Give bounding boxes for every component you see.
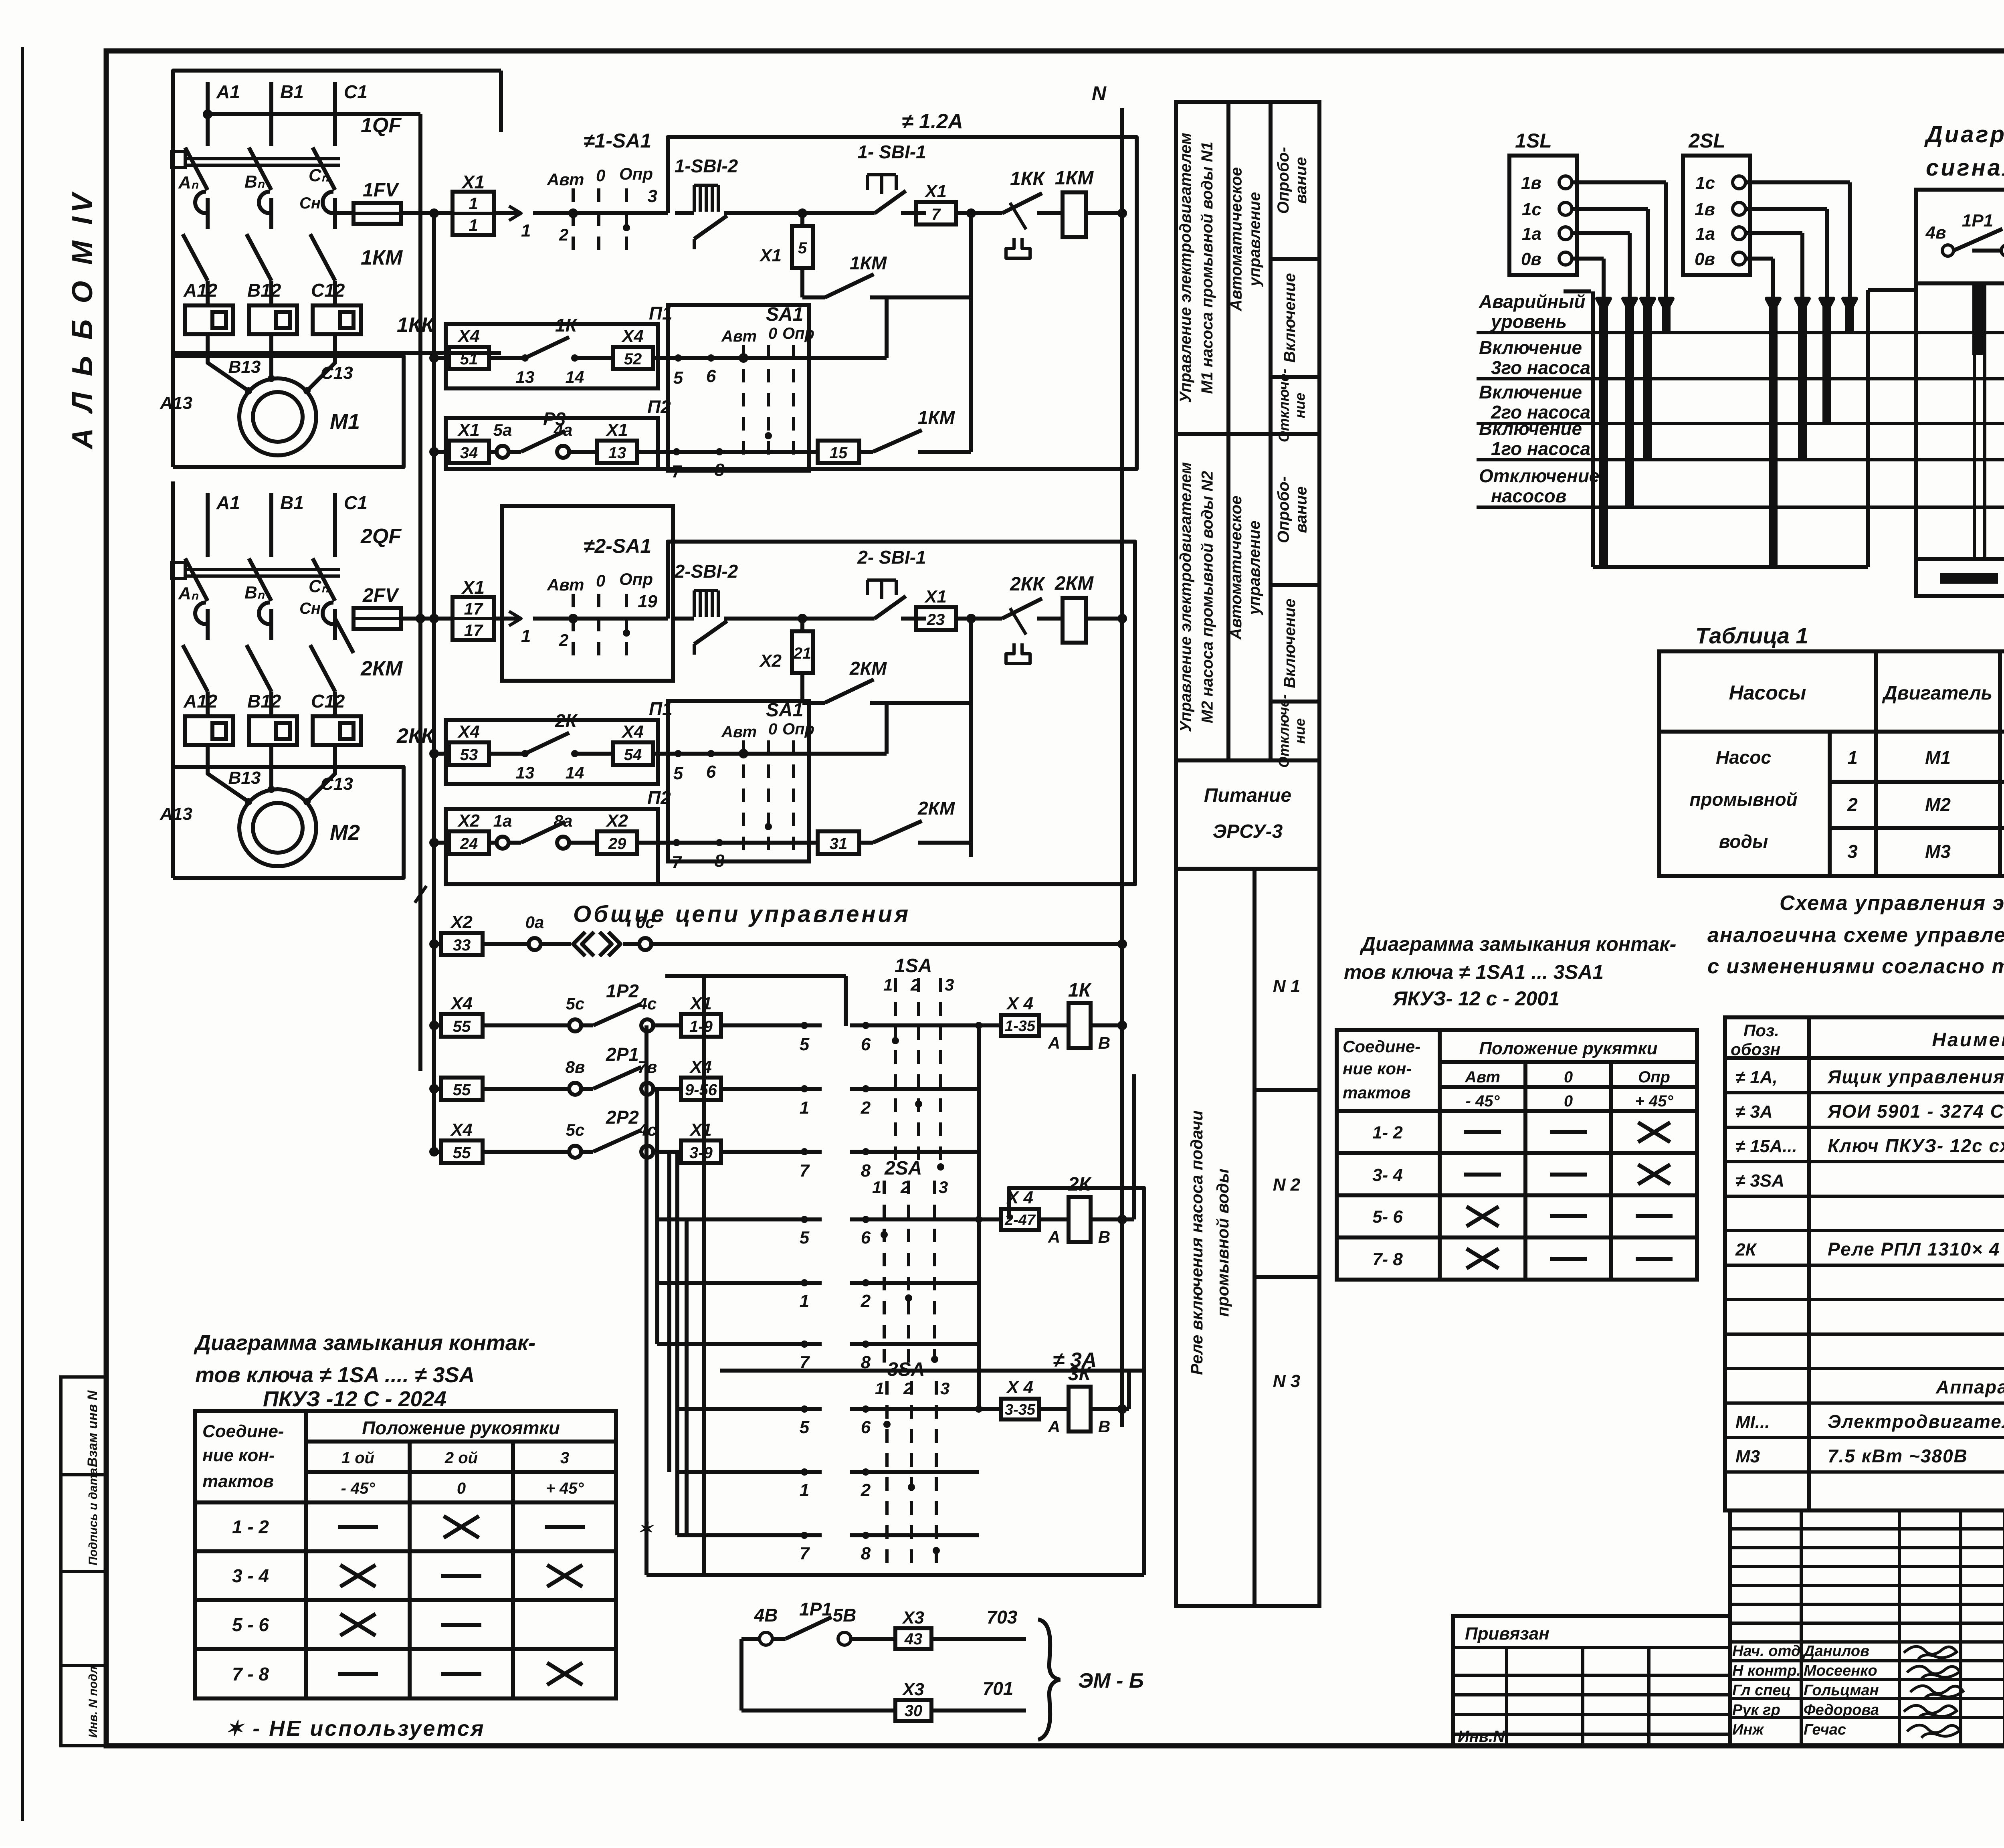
- svg-text:X3: X3: [901, 1680, 924, 1699]
- function block motor 1: [1226, 102, 1230, 434]
- svg-text:0: 0: [1564, 1068, 1573, 1086]
- svg-text:1а: 1а: [1522, 224, 1541, 244]
- svg-text:17: 17: [464, 621, 483, 640]
- contactor coil 2KM: [1063, 598, 1086, 643]
- level sensor 2SL: [1683, 156, 1750, 275]
- svg-text:X2: X2: [605, 811, 628, 831]
- svg-text:≠ 3А: ≠ 3А: [1053, 1349, 1097, 1372]
- svg-text:N: N: [1092, 82, 1107, 105]
- svg-text:5: 5: [800, 1417, 810, 1437]
- svg-text:✶: ✶: [637, 1518, 654, 1539]
- parts list grid: [1725, 1017, 2004, 1510]
- svg-text:С1: С1: [344, 81, 368, 102]
- svg-text:Схема управления электро: Схема управления электродвигателями М2, …: [1780, 892, 2004, 915]
- left margin stamp boxes: [61, 1377, 107, 1746]
- box P2 circuit 2: [446, 809, 658, 884]
- svg-text:Сн: Сн: [299, 194, 321, 212]
- svg-text:X1: X1: [605, 420, 628, 440]
- svg-text:3: 3: [945, 975, 954, 994]
- svg-text:2: 2: [1847, 794, 1858, 815]
- contactor contacts 2KM: [206, 627, 210, 640]
- svg-text:Управление электродвигателем: Управление электродвигателем: [1177, 462, 1195, 732]
- svg-text:Опр: Опр: [782, 325, 814, 342]
- svg-text:Мосеенко: Мосеенко: [1804, 1662, 1877, 1679]
- svg-text:X4: X4: [450, 1120, 473, 1140]
- svg-text:Гечас: Гечас: [1804, 1721, 1846, 1738]
- svg-text:Опр: Опр: [782, 720, 814, 738]
- svg-text:X4: X4: [450, 994, 473, 1013]
- svg-text:55: 55: [453, 1081, 471, 1099]
- svg-text:А Л Ь Б О М IV: А Л Ь Б О М IV: [67, 190, 99, 450]
- svg-text:X4: X4: [621, 722, 644, 742]
- svg-text:1: 1: [469, 216, 478, 235]
- separable connector chevrons: [573, 932, 585, 956]
- wire fuse to X1 circuit1: [401, 211, 453, 215]
- row nodes 7-8 of 2SA: [657, 1342, 822, 1346]
- terminal X4 52: [613, 347, 653, 369]
- svg-text:М3: М3: [1735, 1447, 1760, 1466]
- svg-text:М2: М2: [1925, 794, 1951, 815]
- legend closed contact: [1916, 559, 2004, 596]
- svg-text:X1: X1: [457, 420, 480, 440]
- svg-text:3: 3: [939, 1178, 948, 1197]
- svg-text:Положение рукятки: Положение рукятки: [1479, 1039, 1657, 1058]
- svg-text:5: 5: [673, 368, 683, 388]
- relay contact 1K row P1: [489, 356, 525, 360]
- svg-text:701: 701: [983, 1678, 1014, 1699]
- svg-text:Аварийный: Аварийный: [1479, 291, 1585, 312]
- svg-text:Авт: Авт: [547, 575, 584, 594]
- svg-text:Диаграмма замыкания контак-: Диаграмма замыкания контак-: [1360, 933, 1676, 955]
- svg-text:тов ключа ≠ 1SA1 ... 3SA1: тов ключа ≠ 1SA1 ... 3SA1: [1344, 961, 1604, 983]
- svg-text:Ключ ПКУЗ- 12с схема 20: Ключ ПКУЗ- 12с схема 2001: [1828, 1135, 2004, 1156]
- ladder right verticals: [977, 1025, 981, 1409]
- svg-text:Сₙ: Сₙ: [309, 166, 329, 185]
- svg-text:X1: X1: [689, 1120, 712, 1140]
- privyazan block: [1453, 1616, 1730, 1746]
- svg-text:≠ 3SА: ≠ 3SА: [1735, 1171, 1784, 1191]
- svg-text:Включение: Включение: [1281, 598, 1299, 688]
- svg-text:X4: X4: [457, 722, 480, 742]
- wire through SA1 circuit 1: [533, 211, 668, 215]
- svg-text:Включение: Включение: [1281, 273, 1299, 363]
- svg-text:3-9: 3-9: [689, 1144, 713, 1162]
- svg-text:2КМ: 2КМ: [360, 657, 403, 680]
- row P1 through SA1 circuit 1: [697, 356, 887, 360]
- svg-text:Общие цепи управления: Общие цепи управления: [573, 901, 911, 927]
- svg-text:А12: А12: [183, 280, 218, 301]
- svg-text:сигнализаторов уровня 1SL;: сигнализаторов уровня 1SL; 2SL: [1926, 155, 2004, 181]
- svg-text:2: 2: [861, 1480, 871, 1500]
- svg-text:33: 33: [453, 936, 471, 954]
- svg-text:2SL: 2SL: [1688, 129, 1725, 152]
- svg-text:8: 8: [861, 1544, 871, 1563]
- svg-text:Включение: Включение: [1479, 337, 1582, 358]
- motor M1: [239, 378, 316, 455]
- contact P3 row P2 circuit 1: [489, 450, 497, 454]
- terminal X1 5: [800, 213, 804, 226]
- svg-text:7: 7: [931, 206, 941, 223]
- svg-text:В13: В13: [228, 768, 261, 788]
- svg-text:8а: 8а: [554, 811, 573, 830]
- svg-text:X1: X1: [759, 246, 782, 265]
- svg-text:В: В: [1098, 1417, 1110, 1436]
- svg-text:X2: X2: [759, 651, 782, 671]
- svg-text:промывной: промывной: [1689, 789, 1797, 810]
- svg-text:2- SBI-1: 2- SBI-1: [857, 547, 926, 568]
- remote SA1 block circuit 1: [668, 305, 809, 471]
- svg-text:X4: X4: [621, 326, 644, 346]
- svg-text:19: 19: [638, 592, 657, 611]
- svg-text:2: 2: [861, 1291, 871, 1311]
- svg-text:2: 2: [559, 631, 568, 649]
- svg-text:X4: X4: [457, 326, 480, 346]
- svg-text:2-SBI-2: 2-SBI-2: [674, 561, 738, 582]
- svg-text:Насос: Насос: [1716, 747, 1771, 768]
- level sensor 1SL: [1509, 156, 1577, 275]
- self-hold contact 2KM aux: [800, 673, 804, 703]
- svg-text:- 45°: - 45°: [341, 1480, 376, 1497]
- svg-text:14: 14: [566, 763, 584, 782]
- terminal X1 7: [916, 202, 956, 224]
- relay row 2Р2 at y=2873: [434, 1150, 441, 1154]
- svg-text:Питание: Питание: [1204, 785, 1291, 806]
- svg-text:А1: А1: [216, 81, 240, 102]
- svg-text:Федорова: Федорова: [1804, 1702, 1879, 1719]
- local box circuit 1: [473, 137, 1137, 469]
- svg-text:ЭМ - Б: ЭМ - Б: [1078, 1669, 1144, 1692]
- svg-text:2КК: 2КК: [1010, 574, 1046, 595]
- svg-text:X1: X1: [461, 577, 485, 598]
- svg-text:1КМ: 1КМ: [850, 253, 887, 273]
- svg-text:703: 703: [987, 1607, 1018, 1628]
- svg-text:2: 2: [861, 1098, 871, 1118]
- svg-text:1-SBI-2: 1-SBI-2: [675, 156, 738, 176]
- svg-text:В12: В12: [247, 280, 281, 301]
- svg-text:Опр: Опр: [1638, 1068, 1670, 1086]
- svg-text:1в: 1в: [1521, 173, 1541, 193]
- svg-text:М3: М3: [1925, 841, 1951, 862]
- svg-text:ЯКУЗ- 12 с - 2001: ЯКУЗ- 12 с - 2001: [1392, 987, 1560, 1010]
- svg-text:Ящик управления: Ящик управления: [1827, 1066, 2004, 1087]
- svg-text:1SL: 1SL: [1515, 129, 1552, 152]
- arrow node 1 circuit2: [494, 617, 518, 621]
- svg-text:N 3: N 3: [1273, 1371, 1300, 1391]
- svg-text:3го насоса: 3го насоса: [1491, 357, 1590, 378]
- terminal X1 13: [597, 441, 637, 463]
- svg-text:1К: 1К: [555, 315, 578, 336]
- svg-text:5 - 6: 5 - 6: [232, 1614, 269, 1635]
- svg-text:2Р2: 2Р2: [606, 1107, 639, 1128]
- terminal X4 53: [434, 752, 449, 756]
- svg-text:7: 7: [800, 1161, 810, 1181]
- function block motor 2: [1226, 434, 1230, 760]
- svg-text:1а: 1а: [1695, 224, 1715, 244]
- svg-text:≠ 3А: ≠ 3А: [1735, 1102, 1773, 1122]
- svg-text:X1: X1: [461, 172, 485, 192]
- N bus: [1120, 108, 1124, 1427]
- svg-text:13: 13: [608, 444, 626, 462]
- EM-B lower wire: [739, 1639, 743, 1711]
- svg-text:X 4: X 4: [1006, 1377, 1033, 1397]
- svg-text:А13: А13: [160, 804, 192, 824]
- svg-text:1: 1: [883, 975, 893, 994]
- svg-text:А: А: [1048, 1417, 1060, 1436]
- terminal 31: [818, 831, 859, 854]
- svg-text:Аппаратура по месту: Аппаратура по месту: [1935, 1377, 2004, 1397]
- 1SL wires: [1572, 180, 1666, 184]
- bus corner down to circuit2: [418, 114, 422, 1071]
- parts rows: [1725, 1091, 2004, 1094]
- relay 1К row: [850, 1023, 1001, 1027]
- svg-text:55: 55: [453, 1018, 471, 1035]
- svg-text:14: 14: [566, 368, 584, 386]
- svg-text:1-35: 1-35: [1005, 1018, 1036, 1035]
- svg-text:Опробо-: Опробо-: [1275, 147, 1292, 214]
- svg-text:М2 насоса промывной воды N2: М2 насоса промывной воды N2: [1199, 471, 1216, 723]
- relay 2К row: [850, 1217, 1001, 1221]
- svg-text:Поз.: Поз.: [1743, 1021, 1779, 1040]
- svg-text:X1: X1: [924, 182, 947, 201]
- svg-text:вание: вание: [1293, 486, 1310, 533]
- svg-text:ние: ние: [1292, 718, 1308, 744]
- svg-text:1: 1: [521, 221, 531, 241]
- function block power ERSU: [1176, 867, 1319, 871]
- enclosure box circuit 1: [173, 71, 501, 353]
- fuse 1FV: [335, 211, 354, 215]
- svg-text:2К: 2К: [1735, 1240, 1757, 1260]
- svg-text:1КК: 1КК: [1010, 168, 1046, 190]
- svg-text:Авт: Авт: [547, 170, 584, 189]
- thermal break contact 1KK: [986, 211, 1002, 215]
- svg-text:1: 1: [875, 1379, 884, 1398]
- wire to junction circuit 1: [737, 211, 854, 215]
- svg-text:А12: А12: [183, 691, 218, 712]
- svg-text:1 - 2: 1 - 2: [232, 1516, 269, 1537]
- svg-text:1: 1: [1847, 747, 1858, 768]
- svg-text:N 1: N 1: [1273, 977, 1300, 996]
- terminal 15: [818, 441, 859, 463]
- svg-text:6: 6: [861, 1035, 871, 1054]
- svg-text:0а: 0а: [525, 913, 544, 932]
- svg-text:Подпись и дата: Подпись и дата: [87, 1468, 100, 1565]
- svg-text:N 2: N 2: [1273, 1175, 1301, 1195]
- svg-text:1Р1: 1Р1: [1962, 211, 1993, 230]
- svg-text:воды: воды: [1719, 831, 1768, 852]
- svg-text:тактов: тактов: [202, 1472, 274, 1491]
- thermal break contact 2KK: [986, 617, 1002, 621]
- svg-text:2Р1: 2Р1: [606, 1044, 639, 1065]
- phase stubs A1 B1 C1 circuit 2: [206, 493, 210, 557]
- svg-text:обозн: обозн: [1731, 1040, 1780, 1059]
- svg-text:+ 45°: + 45°: [1635, 1092, 1674, 1110]
- svg-text:МI...: МI...: [1735, 1412, 1770, 1432]
- svg-text:тактов: тактов: [1343, 1083, 1411, 1102]
- relay row 1Р2 at y=2558: [434, 1023, 441, 1027]
- svg-text:15: 15: [830, 444, 848, 462]
- svg-text:4в: 4в: [1925, 223, 1946, 243]
- svg-text:1с: 1с: [1522, 200, 1541, 219]
- svg-text:1: 1: [800, 1098, 809, 1118]
- svg-text:1: 1: [469, 194, 478, 213]
- table 1 grid: [1659, 651, 2004, 876]
- svg-text:Таблица 1: Таблица 1: [1695, 623, 1808, 648]
- svg-text:М1: М1: [330, 410, 360, 434]
- svg-text:53: 53: [460, 746, 478, 764]
- svg-text:1: 1: [521, 626, 531, 646]
- svg-text:Отключе-: Отключе-: [1276, 694, 1292, 768]
- svg-text:- 45°: - 45°: [1466, 1092, 1500, 1110]
- svg-text:Опр: Опр: [619, 570, 653, 588]
- svg-text:управление: управление: [1246, 521, 1263, 616]
- wire to junction circuit 2: [737, 617, 854, 621]
- row P1 through SA1 circuit 2: [697, 752, 887, 756]
- svg-text:7- 8: 7- 8: [1372, 1250, 1403, 1269]
- svg-text:2КМ: 2КМ: [849, 658, 887, 679]
- svg-text:Электродвигатель 4А 112 М2: Электродвигатель 4А 112 М2: [1828, 1411, 2004, 1432]
- svg-text:2К: 2К: [555, 710, 578, 731]
- motor box circuit 1: [171, 353, 175, 467]
- svg-text:Авт: Авт: [1465, 1068, 1500, 1086]
- ladder 3A box: [720, 1371, 1144, 1575]
- function strip table: [1176, 102, 1319, 1606]
- sheet outer margin line: [21, 47, 24, 1821]
- svg-text:Диаграмма замыкания контакто: Диаграмма замыкания контактов: [1924, 121, 2004, 148]
- svg-text:X 4: X 4: [1006, 994, 1033, 1013]
- svg-text:3: 3: [940, 1379, 949, 1398]
- svg-text:1-9: 1-9: [689, 1018, 713, 1035]
- svg-text:2: 2: [559, 225, 568, 244]
- svg-text:SA1: SA1: [766, 304, 803, 325]
- thermal elements 2KK: [185, 716, 233, 745]
- terminal X2 21: [800, 619, 804, 631]
- svg-text:8: 8: [861, 1161, 871, 1181]
- thermal elements 1KK: [185, 305, 233, 334]
- svg-text:8: 8: [715, 851, 725, 871]
- svg-text:2КМ: 2КМ: [917, 798, 956, 819]
- key table 2024 grid: [195, 1411, 616, 1698]
- svg-text:Отключе-: Отключе-: [1276, 369, 1292, 442]
- svg-text:А1: А1: [216, 492, 240, 513]
- local box circuit 2: [473, 542, 1135, 884]
- svg-text:1го насоса: 1го насоса: [1491, 438, 1590, 459]
- svg-text:С1: С1: [344, 492, 368, 513]
- svg-text:В: В: [1098, 1227, 1110, 1246]
- EM-B circuit: [741, 1637, 760, 1641]
- svg-text:Соедине-: Соедине-: [1343, 1037, 1420, 1056]
- key table 2001 grid: [1337, 1030, 1697, 1280]
- svg-text:2FV: 2FV: [362, 585, 400, 606]
- phase bus circuit 1: [208, 112, 420, 116]
- terminal X2 29: [597, 831, 637, 854]
- start button 1-SB1-1: [854, 211, 875, 215]
- svg-text:23: 23: [927, 611, 945, 629]
- svg-text:52: 52: [624, 350, 642, 368]
- svg-text:X4: X4: [689, 1057, 712, 1077]
- terminal X1 23: [916, 607, 956, 630]
- svg-text:8в: 8в: [566, 1057, 585, 1076]
- svg-text:1в: 1в: [1695, 200, 1715, 219]
- ladder 2A box: [1009, 1188, 1144, 1371]
- svg-text:5а: 5а: [493, 421, 512, 439]
- svg-text:5с: 5с: [566, 1120, 585, 1139]
- stop button 2-SB1-2: [675, 617, 694, 621]
- 2SL wires: [1745, 180, 1850, 184]
- svg-text:Данилов: Данилов: [1802, 1643, 1869, 1660]
- svg-text:1- 2: 1- 2: [1372, 1123, 1403, 1142]
- remote SA1 block circuit 2: [668, 701, 809, 861]
- svg-text:3 - 4: 3 - 4: [232, 1565, 269, 1586]
- label area top tick: [1564, 289, 1591, 293]
- row X2-33 link: [434, 942, 441, 946]
- row nodes 5-6 of 2SA: [657, 1217, 822, 1221]
- svg-text:1: 1: [872, 1178, 881, 1197]
- svg-text:А13: А13: [160, 393, 192, 413]
- svg-text:≠ 15А...: ≠ 15А...: [1735, 1136, 1797, 1156]
- contact P3 row P2 circuit 2: [489, 841, 497, 845]
- box P1 circuit 1: [446, 324, 658, 388]
- relay 3К row: [850, 1407, 1001, 1411]
- svg-text:тов ключа ≠ 1SA .... ≠ 3SA: тов ключа ≠ 1SA .... ≠ 3SA: [195, 1363, 475, 1387]
- terminal X4 54: [613, 742, 653, 765]
- phase stubs A1 B1 C1 circuit 1: [206, 82, 210, 146]
- svg-text:2КК: 2КК: [396, 724, 435, 748]
- svg-text:насосов: насосов: [1491, 485, 1567, 506]
- svg-text:ЭРСУ-3: ЭРСУ-3: [1213, 821, 1283, 842]
- svg-text:В1: В1: [280, 81, 304, 102]
- wire fuse to X1 circuit2: [401, 617, 453, 621]
- svg-text:0: 0: [768, 325, 777, 342]
- svg-text:≠ 1.2А: ≠ 1.2А: [902, 110, 963, 133]
- svg-text:1с: 1с: [1695, 173, 1715, 193]
- svg-text:1КМ: 1КМ: [361, 246, 403, 269]
- svg-text:Опр: Опр: [619, 164, 653, 183]
- terminal X1 34: [434, 450, 449, 454]
- svg-text:Опробо-: Опробо-: [1275, 476, 1293, 543]
- svg-text:Инж: Инж: [1732, 1721, 1764, 1738]
- svg-text:X3: X3: [901, 1608, 924, 1628]
- svg-text:0: 0: [596, 166, 605, 185]
- svg-text:30: 30: [905, 1702, 923, 1720]
- svg-text:0: 0: [457, 1480, 466, 1497]
- svg-text:М1: М1: [1925, 747, 1951, 768]
- contact 1KM row P2: [859, 450, 873, 454]
- svg-text:Соедине-: Соедине-: [202, 1421, 284, 1441]
- svg-text:В: В: [1098, 1033, 1110, 1052]
- svg-text:Сн: Сн: [299, 600, 321, 617]
- row nodes 1-2 of 2SA: [657, 1281, 822, 1285]
- svg-text:Авт: Авт: [721, 328, 757, 345]
- start button 2-SB1-1: [854, 617, 875, 621]
- svg-text:уровень: уровень: [1490, 311, 1567, 332]
- svg-text:1КМ: 1КМ: [918, 407, 956, 428]
- svg-text:X1: X1: [924, 587, 947, 607]
- svg-text:24: 24: [460, 835, 478, 853]
- motor box circuit 2: [171, 764, 175, 878]
- svg-text:1QF: 1QF: [361, 114, 402, 137]
- svg-text:3: 3: [1847, 841, 1858, 862]
- svg-text:X2: X2: [450, 912, 473, 932]
- svg-text:X1: X1: [689, 994, 712, 1013]
- box P2 circuit 1: [446, 418, 658, 469]
- terminal X1 17/17: [453, 597, 494, 640]
- svg-text:2К: 2К: [1068, 1174, 1092, 1195]
- terminal X2 24: [434, 841, 449, 845]
- row P2 through SA1 circuit 1: [697, 450, 818, 454]
- svg-text:Включение: Включение: [1479, 382, 1582, 402]
- relay contact 2K row P1: [489, 752, 525, 756]
- svg-text:3: 3: [648, 186, 657, 206]
